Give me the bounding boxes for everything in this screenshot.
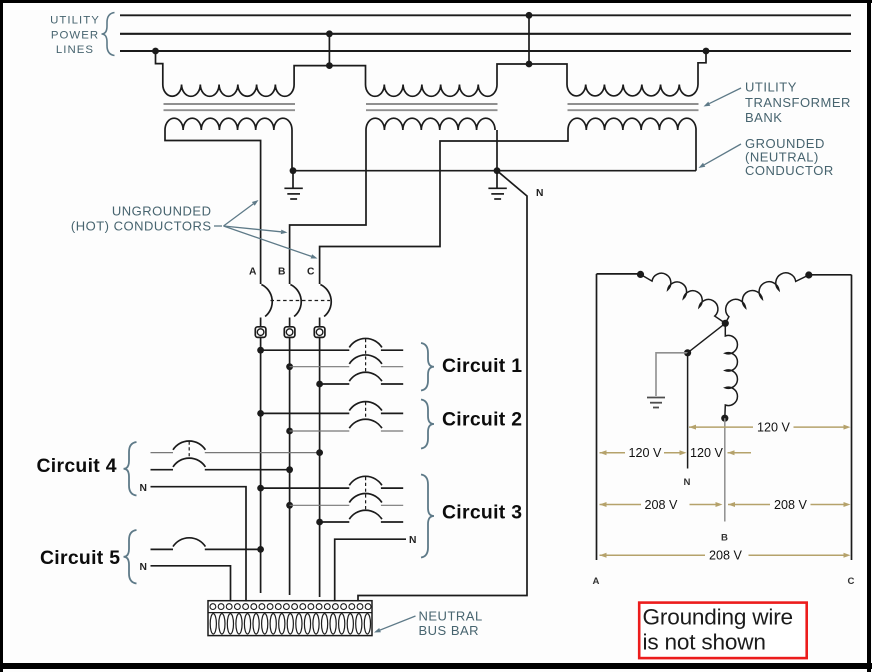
wire wye N vertical xyxy=(687,353,689,469)
circuit 2 breaker tie (dashed) xyxy=(365,402,367,420)
node wye B bottom xyxy=(721,415,728,422)
wire service neutral N xyxy=(358,171,527,602)
dimension 208V left (A to B) xyxy=(600,502,607,507)
svg-text:120 V: 120 V xyxy=(690,446,724,460)
wire T1 secondary right to neutral xyxy=(291,130,293,171)
node neutral-ground junction 1 xyxy=(290,167,297,174)
label UTILITY POWER LINES xyxy=(50,15,100,57)
wire phase A from T1 secondary xyxy=(165,130,261,284)
svg-text:120 V: 120 V xyxy=(629,446,663,460)
circuit 4 neutral wire xyxy=(151,487,247,602)
circuit 3 pole C wire xyxy=(316,519,323,526)
brace circuit 1 xyxy=(421,343,434,391)
transformer T1 core xyxy=(164,104,296,110)
svg-text:Circuit 4: Circuit 4 xyxy=(37,455,117,477)
svg-text:Grounding wire: Grounding wire xyxy=(643,605,793,630)
node neutral-ground junction 2 xyxy=(494,167,501,174)
svg-text:C: C xyxy=(307,267,315,278)
circuit 4 breaker pole B xyxy=(173,458,205,467)
main breaker pole A xyxy=(261,285,272,317)
wire bus A xyxy=(260,337,262,593)
wire bus B xyxy=(289,337,291,595)
circuit 5 breaker pole A xyxy=(173,538,205,547)
svg-text:LINES: LINES xyxy=(56,44,94,56)
label UNGROUNDED HOT CONDUCTORS xyxy=(71,204,212,234)
disconnect square B xyxy=(284,327,295,338)
circuit 2 breaker pole A xyxy=(349,402,382,411)
wye winding C (coil) xyxy=(725,273,809,323)
svg-text:A: A xyxy=(593,576,600,587)
circuit 2 pole B wire xyxy=(286,428,293,435)
circuit 3 neutral wire xyxy=(335,539,406,601)
dimension 120V top (N to C) xyxy=(689,425,696,430)
wye: right vertical C xyxy=(851,275,853,560)
disconnect square A xyxy=(255,327,266,338)
transformer T2 secondary coil xyxy=(366,118,495,130)
svg-text:is not shown: is not shown xyxy=(643,630,766,655)
wire utility line L3 xyxy=(120,50,851,52)
svg-text:Circuit 5: Circuit 5 xyxy=(40,547,120,569)
wire T2 secondary right down xyxy=(496,130,498,171)
wire neutral bus horizontal xyxy=(292,170,696,172)
svg-text:N: N xyxy=(140,483,147,494)
brace circuit 4 xyxy=(124,442,137,496)
wire bus C xyxy=(319,337,321,597)
neutral bus bar terminal screws xyxy=(210,604,371,610)
circuit 3 breaker pole A xyxy=(349,476,382,485)
label NEUTRAL BUS BAR xyxy=(419,609,483,639)
dimension 208V right (B to C) xyxy=(728,502,735,507)
circuit 1 breaker pole C xyxy=(349,372,382,381)
svg-text:CONDUCTOR: CONDUCTOR xyxy=(745,163,834,178)
wire T1 primary left lead xyxy=(156,51,163,85)
node wye A xyxy=(637,271,644,278)
main breaker pole C xyxy=(320,285,331,317)
transformer T3 primary coil xyxy=(567,85,698,96)
node wye C xyxy=(805,271,812,278)
wye: left vertical A xyxy=(596,274,598,560)
circuit 1 pole B wire xyxy=(286,363,293,370)
wire wye neutral diagonal xyxy=(688,323,726,353)
circuit 1 breaker pole A xyxy=(349,338,382,347)
wire utility line L1 xyxy=(120,14,851,16)
svg-text:208 V: 208 V xyxy=(709,549,743,563)
wire utility line L2 xyxy=(120,33,851,35)
circuit 3 breaker pole C xyxy=(349,510,382,519)
circuit 2 breaker pole B xyxy=(349,419,382,428)
leader to transformer bank xyxy=(709,88,741,104)
circuit 5 pole A wire xyxy=(151,548,174,550)
svg-text:208 V: 208 V xyxy=(645,498,679,512)
svg-text:Circuit 1: Circuit 1 xyxy=(442,355,522,377)
brace circuit 3 xyxy=(421,475,434,558)
leader to grounded conductor xyxy=(704,144,741,165)
wire tap to L1 xyxy=(528,15,530,64)
svg-text:BUS BAR: BUS BAR xyxy=(419,623,480,638)
circuit 4 breaker pole C xyxy=(173,441,205,450)
wire wye B vertical (gray) xyxy=(724,418,726,521)
transformer T3 core xyxy=(568,104,699,110)
wire T1-T2 primary tie xyxy=(294,66,365,85)
label UTILITY TRANSFORMER BANK xyxy=(745,80,851,125)
dimension 120V left (A to N) xyxy=(600,450,607,455)
svg-text:UTILITY: UTILITY xyxy=(50,15,100,27)
ground symbol G2 xyxy=(488,171,506,199)
svg-text:208 V: 208 V xyxy=(774,498,808,512)
leader arrow to A conductor xyxy=(224,204,254,226)
svg-text:NEUTRAL: NEUTRAL xyxy=(419,609,483,624)
transformer T2 core xyxy=(366,104,498,110)
svg-text:N: N xyxy=(536,188,543,199)
neutral bus bar body xyxy=(208,601,372,636)
svg-text:C: C xyxy=(848,576,855,587)
svg-text:UTILITY: UTILITY xyxy=(745,80,797,95)
wye: top right wire xyxy=(809,274,852,276)
neutral bus bar spring loops xyxy=(210,614,370,634)
svg-text:(HOT) CONDUCTORS: (HOT) CONDUCTORS xyxy=(71,219,212,234)
svg-text:N: N xyxy=(684,477,691,488)
wire T3 primary right lead xyxy=(698,51,706,85)
dimension 208V bottom (A to C) xyxy=(600,553,607,558)
transformer T1 secondary coil xyxy=(165,118,292,130)
transformer T2 primary coil xyxy=(366,85,498,97)
svg-text:N: N xyxy=(409,535,416,546)
ground symbol G1 xyxy=(284,171,302,199)
leader to bus bar xyxy=(380,616,416,630)
wire tap to L2 xyxy=(328,34,330,66)
node wye center xyxy=(722,320,729,327)
main breaker tie bar (dashed) xyxy=(271,300,331,302)
node tap L1 xyxy=(526,12,533,19)
wye: top left wire xyxy=(597,273,641,275)
main breaker pole B xyxy=(290,285,301,317)
transformer T3 secondary coil xyxy=(568,118,696,130)
svg-text:POWER: POWER xyxy=(51,29,99,41)
svg-text:Circuit 3: Circuit 3 xyxy=(442,502,522,524)
svg-text:A: A xyxy=(249,267,257,278)
circuit 4 breaker tie (dashed) xyxy=(188,442,190,459)
wye winding B (vertical coil) xyxy=(725,323,738,418)
circuit 1 breaker tie (dashed) xyxy=(365,339,367,373)
svg-text:N: N xyxy=(140,562,147,573)
wire phase C from T3 secondary xyxy=(320,130,568,284)
wire T3 secondary right down xyxy=(695,130,697,171)
note box: grounding wire is not shown xyxy=(639,603,807,659)
circuit 3 breaker tie (dashed) xyxy=(365,477,367,511)
svg-text:UNGROUNDED: UNGROUNDED xyxy=(112,204,212,219)
circuit 2 pole A wire xyxy=(257,410,264,417)
disconnect square C xyxy=(314,327,325,338)
node wye neutral xyxy=(684,349,691,356)
wye ground wire (gray) xyxy=(656,353,688,396)
svg-text:BANK: BANK xyxy=(745,110,782,125)
circuit 1 breaker pole B xyxy=(349,355,382,364)
svg-text:120 V: 120 V xyxy=(757,421,791,435)
brace utility lines xyxy=(102,13,115,56)
node tap L3 xyxy=(152,48,159,55)
svg-text:B: B xyxy=(721,533,728,544)
wye winding A (coil) xyxy=(641,273,726,323)
circuit 1 pole A wire xyxy=(257,347,264,354)
circuit 3 pole B wire xyxy=(286,502,293,509)
brace circuit 5 xyxy=(124,530,137,584)
svg-text:B: B xyxy=(278,267,285,278)
circuit 4 pole B wire xyxy=(151,469,174,471)
circuit 3 pole A wire xyxy=(257,485,264,492)
svg-text:Circuit 2: Circuit 2 xyxy=(442,409,522,431)
node primary tie junction xyxy=(326,62,333,69)
circuit 3 breaker pole B xyxy=(349,494,382,503)
wire T2-T3 primary tie xyxy=(497,64,567,85)
transformer T1 primary coil xyxy=(163,85,294,97)
brace circuit 2 xyxy=(421,400,434,449)
wire phase B from T2 secondary xyxy=(290,130,366,284)
circuit 4 pole C wire xyxy=(151,452,174,454)
leader arrow to B conductor xyxy=(224,226,282,232)
circuit 1 pole C wire xyxy=(316,381,323,388)
node tap L2 xyxy=(326,30,333,37)
svg-text:TRANSFORMER: TRANSFORMER xyxy=(745,95,851,110)
node tap L3 right xyxy=(703,48,710,55)
leader arrow to C conductor xyxy=(224,226,312,256)
wye ground symbol xyxy=(647,398,665,408)
label GROUNDED NEUTRAL CONDUCTOR xyxy=(745,136,834,178)
node T2 tie junction xyxy=(526,61,533,68)
circuit 5 neutral wire xyxy=(151,566,231,602)
